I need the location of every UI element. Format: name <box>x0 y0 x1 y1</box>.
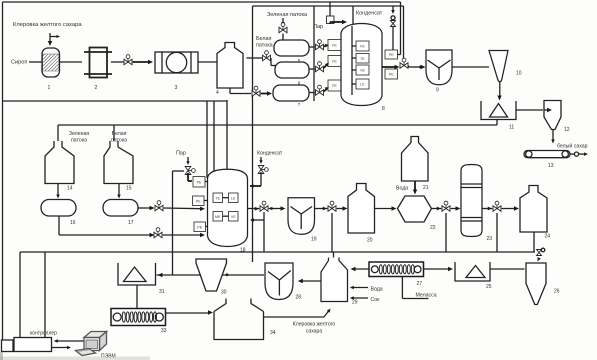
sensor box PE 18-1 <box>193 177 208 188</box>
tank 20 <box>348 184 375 244</box>
svg-text:Сок: Сок <box>371 297 381 303</box>
wire 25-26 <box>490 268 525 270</box>
tank 5 <box>274 40 309 63</box>
svg-text:Клеровка желтого сахара: Клеровка желтого сахара <box>13 22 82 28</box>
valve 23 out <box>493 201 501 211</box>
filter 3 <box>155 52 198 91</box>
svg-text:Сироп: Сироп <box>11 60 27 66</box>
wire 11-12 <box>516 109 543 111</box>
wire top-middle box top y6 <box>253 5 404 7</box>
wire 2-valve <box>111 61 124 63</box>
valve 26 feed <box>537 248 545 255</box>
terminal box <box>2 340 14 352</box>
wire arrow to 20 <box>337 206 348 210</box>
label Пар mid <box>176 151 186 157</box>
pan 8 box VE <box>352 65 369 75</box>
sensor box FE tank6 <box>328 56 341 67</box>
wire Сок into 29 <box>350 296 380 303</box>
wire 10 drop to 11 <box>497 82 501 101</box>
svg-text:27: 27 <box>417 281 423 287</box>
wire 18 outlet <box>248 207 260 211</box>
cyclone 12 <box>544 101 570 134</box>
wire 3-4 <box>198 61 217 63</box>
wire 27-25 <box>424 267 454 271</box>
sensor box PE 18-2 <box>193 196 208 206</box>
funnel 30 <box>196 259 227 296</box>
svg-text:20: 20 <box>367 238 373 244</box>
svg-text:24: 24 <box>545 234 551 240</box>
wire Вода into 29 <box>350 286 383 293</box>
wire tank7 out <box>309 92 315 94</box>
pan 8 box FE <box>352 41 369 51</box>
svg-text:2: 2 <box>95 85 98 91</box>
svg-text:13: 13 <box>548 163 554 169</box>
svg-text:Вода: Вода <box>371 287 383 293</box>
svg-text:26: 26 <box>554 289 560 295</box>
svg-text:Зеленая: Зеленая <box>69 131 90 137</box>
wire vertical x252 <box>252 6 254 262</box>
wire 29-28 <box>298 279 322 283</box>
vacuum pan 8 <box>341 24 385 113</box>
tank 29 <box>321 252 358 306</box>
screen 31 <box>118 263 165 295</box>
label Белая патока mid <box>111 131 127 144</box>
centrifugal 28 <box>265 263 301 301</box>
wire arrow into 26 <box>536 257 541 262</box>
svg-text:14: 14 <box>67 186 73 192</box>
svg-text:22: 22 <box>430 225 436 231</box>
screw conveyor 27 <box>369 262 424 287</box>
tank 24 <box>520 186 550 240</box>
wire drop x264 <box>263 212 265 252</box>
column 23 <box>461 165 492 243</box>
label Белая патока top <box>256 36 273 49</box>
valve 22 out <box>442 201 450 211</box>
wire arrow to 24 <box>502 206 519 210</box>
vacuum pan 18 <box>208 169 248 253</box>
svg-text:FE: FE <box>332 84 337 88</box>
label Клеровка желтого сахара <box>13 22 82 28</box>
wire vertical x207 to vessel 18 <box>206 101 208 178</box>
wire 21 into 22 <box>413 181 417 195</box>
valve tank5 out <box>316 40 324 50</box>
label Зеленая патока top <box>267 12 308 18</box>
wire to centrifuge 9 <box>409 65 426 69</box>
svg-text:сахара: сахара <box>306 329 323 335</box>
svg-text:LE: LE <box>231 196 236 200</box>
wire green molasses feed <box>281 18 285 26</box>
wire branch into 18 right <box>250 218 264 222</box>
svg-text:PE: PE <box>389 73 394 77</box>
svg-text:29: 29 <box>352 300 358 306</box>
wire vertical x314 <box>313 6 315 101</box>
svg-text:белый сахар: белый сахар <box>557 143 588 150</box>
svg-text:31: 31 <box>159 289 165 295</box>
svg-text:25: 25 <box>486 284 492 290</box>
wire arrow into 18 lower <box>150 233 206 237</box>
cyclone 26 <box>526 263 560 305</box>
valve tank7 out <box>316 85 324 95</box>
svg-text:10: 10 <box>516 71 522 77</box>
wire drop tank24 x534 <box>533 232 535 252</box>
conveyor 13 <box>524 151 588 170</box>
wire arrow to 19 <box>269 206 286 210</box>
svg-text:контроллер: контроллер <box>30 330 57 336</box>
svg-text:17: 17 <box>128 220 134 226</box>
wire into tank 6 <box>271 58 276 66</box>
svg-text:Пар: Пар <box>176 151 186 157</box>
funnel 10 <box>489 51 522 82</box>
wire 15-17 <box>117 184 121 199</box>
wire tank5 out <box>309 46 315 48</box>
label ПЭВМ <box>101 354 116 360</box>
heater 2 <box>84 48 112 92</box>
wire 23 out <box>482 207 492 211</box>
scan artifact bottom edge <box>0 352 150 360</box>
wire 19 out <box>315 207 328 211</box>
wire drop x497 <box>496 213 498 252</box>
svg-text:Клеровка желтого: Клеровка желтого <box>293 322 336 328</box>
wire 14-16 <box>56 184 60 199</box>
svg-text:1: 1 <box>48 85 51 91</box>
wire 22 out <box>432 207 442 211</box>
svg-text:12: 12 <box>564 127 570 133</box>
wire long pipe y125 <box>58 120 497 125</box>
valve 18 outlet <box>260 201 268 211</box>
wire 28-30 line <box>157 273 265 277</box>
label Пар top <box>313 24 323 30</box>
wire arrow into 7 <box>261 91 272 95</box>
svg-text:18: 18 <box>240 248 246 254</box>
svg-text:23: 23 <box>487 236 493 242</box>
wire arrow 7 to FE <box>324 85 330 91</box>
sensor box PE pan right lower <box>385 69 398 79</box>
sensor box FE tank7 <box>328 80 341 91</box>
svg-text:7: 7 <box>298 102 301 107</box>
pan 18 box LE <box>229 193 239 203</box>
wire drop x332 <box>331 213 333 252</box>
wire left border <box>2 2 4 340</box>
wire vertical x214 to vessel 18 <box>213 101 215 171</box>
wire drop x20 to controller <box>19 252 21 337</box>
label Сироп <box>11 60 27 66</box>
svg-text:28: 28 <box>296 295 302 301</box>
pan 18 box VE <box>229 212 239 222</box>
svg-text:патока: патока <box>256 43 273 49</box>
pan 8 inner pipe <box>351 26 353 95</box>
wire stub x254 <box>0 0 1 1</box>
tank 21 water <box>402 137 429 192</box>
wire 27 molasses drain <box>402 277 428 299</box>
wire syrup line <box>29 61 42 63</box>
wire 27 to 29 <box>351 267 370 271</box>
svg-text:LE: LE <box>360 83 365 87</box>
svg-text:патока: патока <box>71 138 87 144</box>
svg-text:9: 9 <box>436 88 439 94</box>
screw conveyor 33 <box>111 309 167 335</box>
svg-text:11: 11 <box>509 125 514 131</box>
wire drop x446 <box>445 213 447 252</box>
steam valve box top <box>327 2 335 24</box>
svg-text:34: 34 <box>270 330 276 336</box>
computer keyboard <box>76 349 96 356</box>
wire white molasses line <box>247 57 263 59</box>
hopper 34 <box>214 299 276 340</box>
svg-text:PE: PE <box>196 199 201 203</box>
valve 19 out <box>328 201 336 211</box>
sensor box PE 18-3 <box>194 222 208 232</box>
computer monitor <box>84 332 107 351</box>
valve pan outlet <box>400 58 408 68</box>
svg-text:21: 21 <box>423 185 429 191</box>
pan 8 box TE <box>352 54 369 64</box>
wire arrow 6 to FE <box>324 61 330 68</box>
centrifugal 19 <box>288 198 317 243</box>
wire 12 drop <box>551 130 555 144</box>
wire controller to keyboard <box>52 346 72 350</box>
wire 34 recycle out <box>264 307 332 317</box>
valve 4-7 <box>252 86 260 96</box>
wire condensate drop <box>391 6 396 50</box>
mixer 22 hexagon <box>398 196 436 231</box>
wire pc to controller <box>54 339 85 343</box>
tank 17 <box>103 200 138 227</box>
valve 16 line <box>154 228 162 238</box>
svg-text:3: 3 <box>175 85 178 91</box>
valve steam mid <box>185 167 195 175</box>
tank 7 <box>273 85 309 107</box>
wire vertical x403 <box>403 6 405 60</box>
label Зеленая патока mid <box>69 131 90 144</box>
melter 1 <box>42 48 60 91</box>
wire feed into 1 <box>48 33 60 46</box>
wire arrow 5 to FE <box>324 43 329 47</box>
label Меласса <box>416 293 437 299</box>
wire steam drop mid <box>186 157 189 165</box>
pan 18 box ME <box>213 212 223 222</box>
collector 4 <box>216 43 243 97</box>
wire steam into PE1 <box>188 173 192 181</box>
svg-text:19: 19 <box>311 237 317 243</box>
wire thick arrow to 3 <box>133 60 153 64</box>
svg-text:Белая: Белая <box>256 36 271 42</box>
label Конденсат top <box>356 11 383 17</box>
svg-text:16: 16 <box>70 220 76 226</box>
controller box <box>14 330 57 351</box>
svg-text:Конденсат: Конденсат <box>356 11 383 17</box>
wire vertical x400 <box>398 2 401 55</box>
svg-text:VE: VE <box>360 69 365 73</box>
wire steam arrow into pan 8 <box>330 20 347 24</box>
wire long pipe y252 <box>20 251 535 253</box>
svg-text:Белая: Белая <box>112 131 127 137</box>
label Вода 21 <box>396 186 408 192</box>
label Конденсат mid <box>257 151 283 157</box>
wire arrow into 18 mid <box>150 206 206 211</box>
pan 18 box TE <box>213 193 223 203</box>
svg-text:PE: PE <box>197 225 202 229</box>
wire tank6 out <box>309 68 315 70</box>
valve 17 line <box>155 201 163 211</box>
wire 17 out <box>138 207 154 209</box>
svg-text:33: 33 <box>161 328 167 334</box>
svg-text:FE: FE <box>332 44 337 48</box>
label Клеровка желтого сахара bottom <box>293 322 336 335</box>
svg-text:Вода: Вода <box>396 186 408 192</box>
svg-text:Конденсат: Конденсат <box>257 151 283 157</box>
sensor box PE pan right upper <box>385 50 398 59</box>
label белый сахар <box>557 143 588 150</box>
pan 8 box LE <box>352 79 369 89</box>
svg-text:FE: FE <box>332 60 337 64</box>
svg-text:TE: TE <box>360 57 365 61</box>
wire 16 out <box>59 216 153 235</box>
svg-text:4: 4 <box>216 90 219 96</box>
valve tank6 out <box>316 62 324 72</box>
centrifugal 9 <box>426 50 452 94</box>
valve white feed <box>263 51 271 61</box>
svg-text:30: 30 <box>221 290 227 296</box>
svg-text:Зеленая патока: Зеленая патока <box>267 12 308 18</box>
tank 6 <box>275 62 309 86</box>
wire into tank 5 <box>282 34 284 41</box>
svg-text:PE: PE <box>389 53 394 57</box>
wire vertical x227 to vessel 18 <box>226 100 228 170</box>
wire 31-33 <box>136 285 138 308</box>
wire 9-10 <box>452 66 489 68</box>
svg-text:TE: TE <box>215 196 220 200</box>
wire control line x172 <box>173 171 185 275</box>
wire vertical x353 <box>352 6 354 26</box>
sensor box FE tank5 <box>328 40 341 51</box>
svg-text:Пар: Пар <box>313 24 323 30</box>
svg-text:15: 15 <box>126 186 132 192</box>
wire drop x45 to controller <box>44 252 46 337</box>
wire drop to tank 14 <box>57 125 59 141</box>
wire condensate mid <box>250 157 269 188</box>
svg-text:ME: ME <box>215 215 221 219</box>
tank 16 <box>41 200 76 227</box>
svg-text:FE: FE <box>360 45 365 49</box>
valve green feed <box>279 23 287 33</box>
valve after 2 <box>124 55 132 65</box>
wire top section bottom pipe y101 <box>3 100 228 102</box>
wire arrow to 23 <box>451 206 461 210</box>
wire top border <box>3 1 401 3</box>
wire 1-2 <box>60 61 83 63</box>
vibro trough 11 <box>481 101 516 131</box>
svg-text:Меласса: Меласса <box>416 293 437 299</box>
tank 14 <box>45 141 74 192</box>
wire 20 out <box>375 206 397 210</box>
tank 15 <box>104 141 133 192</box>
wire 4 drain to 7 <box>230 88 251 94</box>
pan 18 box links <box>223 198 229 217</box>
svg-text:8: 8 <box>382 106 385 112</box>
svg-text:PE: PE <box>197 180 202 184</box>
svg-text:VE: VE <box>231 215 236 219</box>
screen 25 <box>455 262 492 290</box>
wire 33-34 <box>166 310 214 314</box>
wire drop to tank 15 <box>113 125 115 141</box>
wire pan 8 outlet <box>382 65 400 69</box>
svg-text:патока: патока <box>111 138 127 144</box>
